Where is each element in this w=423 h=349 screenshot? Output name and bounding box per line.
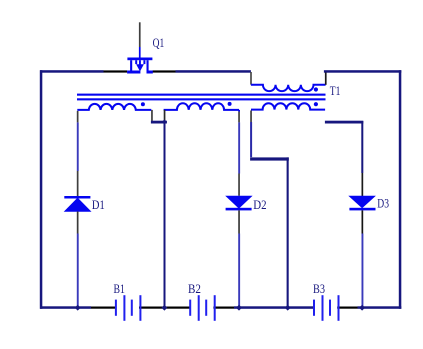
node D3 junction bbox=[359, 305, 365, 311]
wire gray riser into primary winding bbox=[250, 72, 252, 85]
svg-text:Q1: Q1 bbox=[153, 35, 165, 50]
wire top rail navy segment to transformer bbox=[176, 70, 251, 73]
transformer T1 core line upper bbox=[77, 94, 326, 96]
wire bottom rail black B1 to B2 bbox=[139, 307, 190, 309]
wire center-tap horizontal navy bbox=[151, 121, 167, 124]
wire winding2 head dark stub bbox=[164, 110, 166, 121]
wire D2 branch blue bbox=[238, 122, 240, 173]
wire primary riser black bbox=[325, 73, 327, 85]
wire gate lead gray bbox=[139, 22, 141, 47]
transformer T1 winding 1 dot bbox=[141, 102, 145, 106]
wire winding1 tail gray step bbox=[151, 110, 153, 121]
transformer T1 winding 3 dot bbox=[314, 102, 318, 106]
node B1-B2 junction bbox=[162, 305, 168, 311]
transistor Q1 bbox=[127, 58, 153, 74]
wire D3 branch horizontal navy bbox=[325, 121, 363, 124]
svg-text:T1: T1 bbox=[330, 83, 341, 98]
wire bottom rail navy left bbox=[40, 306, 91, 309]
wire top rail left (navy) bbox=[40, 70, 104, 73]
wire right vertical rail bbox=[399, 70, 402, 309]
diode D3 bbox=[348, 196, 376, 211]
battery B3 bbox=[313, 295, 340, 321]
svg-text:D2: D2 bbox=[253, 197, 266, 212]
wire top rail black segment right of Q1 bbox=[153, 70, 176, 72]
wire bottom rail black after B3 bbox=[337, 307, 357, 309]
wire D2 branch gray above diode bbox=[238, 174, 240, 196]
wire bottom rail black after B2 bbox=[213, 307, 234, 309]
node D2 junction bbox=[236, 305, 242, 311]
svg-text:B2: B2 bbox=[188, 281, 201, 296]
wire winding3 tap vertical bbox=[287, 157, 289, 307]
wire winding3 head gray lead bbox=[250, 111, 252, 123]
transformer T1 primary winding bbox=[251, 85, 326, 91]
wire D3 branch black above diode bbox=[362, 173, 364, 196]
wire D2 branch black below diode bbox=[238, 210, 240, 233]
wire winding3 tap horizontal bbox=[250, 157, 289, 160]
wire D1 branch blue lower bbox=[77, 234, 79, 307]
wire D1 branch blue bbox=[77, 122, 79, 171]
svg-text:D1: D1 bbox=[92, 197, 105, 212]
wire bottom rail navy middle bbox=[234, 306, 314, 309]
node center-tap junction bbox=[162, 119, 167, 124]
wire D3 branch navy vertical bbox=[361, 121, 363, 173]
wire left vertical rail bbox=[40, 70, 43, 309]
node D1 junction bbox=[75, 305, 81, 311]
wire top rail black segment left of Q1 bbox=[104, 70, 128, 72]
wire D1 branch black below diode bbox=[77, 212, 79, 234]
transformer T1 secondary winding 1 bbox=[77, 104, 151, 110]
wire center-tap vertical to battery string bbox=[164, 122, 166, 308]
wire bottom rail navy right bbox=[358, 306, 402, 309]
svg-text:B3: B3 bbox=[313, 281, 325, 296]
battery B1 bbox=[115, 295, 141, 321]
svg-text:B1: B1 bbox=[114, 281, 125, 296]
wire D3 branch blue lower bbox=[362, 234, 364, 307]
transformer T1 primary dot bbox=[314, 87, 318, 91]
wire D2 branch corner blue bbox=[238, 110, 240, 112]
node winding3 tap junction bbox=[285, 305, 291, 311]
battery B2 bbox=[189, 295, 216, 321]
wire top rail right (navy) bbox=[324, 70, 401, 73]
transformer T1 secondary winding 2 bbox=[164, 103, 239, 110]
transformer T1 winding 2 dot bbox=[228, 102, 232, 106]
svg-text:D3: D3 bbox=[377, 195, 389, 210]
wire bottom rail black before B1 bbox=[91, 307, 115, 309]
wire gate lead blue bbox=[139, 47, 141, 59]
wire D1 branch gray upper bbox=[77, 111, 79, 123]
diode D2 bbox=[225, 196, 252, 211]
transformer T1 core line lower bbox=[77, 98, 326, 100]
wire D1 branch gray above diode bbox=[77, 171, 79, 196]
transformer T1 secondary winding 3 bbox=[251, 103, 325, 109]
wire D2 branch blue lower bbox=[238, 234, 240, 307]
wire D3 branch black below diode bbox=[362, 210, 364, 233]
diode D1 bbox=[64, 196, 92, 212]
wire D2 branch gray upper bbox=[238, 112, 240, 123]
wire winding3 head navy lead bbox=[250, 122, 252, 157]
